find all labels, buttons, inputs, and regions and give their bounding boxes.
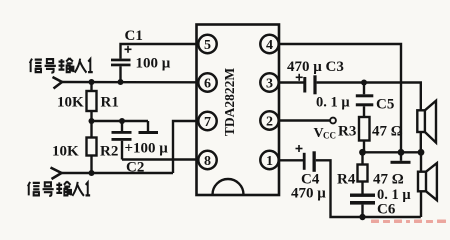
node R1 bottom [89,118,95,124]
svg-text:47 Ω: 47 Ω [372,124,403,140]
label 0.1u (C5) [316,95,350,111]
svg-text:8: 8 [204,154,211,169]
label 470u C3 [287,59,344,75]
capacitor C1 plates [111,59,131,67]
resistor R2 [87,121,97,173]
pin 2 [260,111,278,129]
wire speaker2 bottom to rail [420,191,422,217]
label C5 [376,97,394,113]
svg-text:470 μ: 470 μ [291,186,326,202]
pin 6 [198,73,216,91]
wire C1 bottom lead [119,66,121,82]
svg-text:2: 2 [266,114,273,129]
svg-text:R4: R4 [337,172,356,188]
入 [75,59,87,73]
wire pin 3 to C3 [278,81,303,83]
resistor R4 [358,152,368,193]
信 [30,59,42,73]
1 [88,59,93,72]
capacitor C4 plates [303,151,316,172]
capacitor C3 plates [303,75,316,94]
输 [59,58,74,72]
pin 8 [198,151,216,169]
号 [43,182,54,196]
input terminal 1 arrow [53,77,63,89]
watermark remnants [371,220,446,224]
1 [86,182,91,195]
svg-text:TDA2822M: TDA2822M [222,68,237,137]
label 信号输入1 bottom [28,181,90,196]
svg-text:5: 5 [204,38,211,53]
label 47ohm (R4) [373,172,404,188]
speaker LS1 [417,101,436,143]
pin 7 [198,112,216,130]
svg-text:C5: C5 [376,97,394,113]
label 0.1u (C6) [377,187,411,203]
wire C1 top to pin 5 [121,44,199,59]
node R3/R4 [359,149,366,156]
label 10K (R1) [57,95,84,111]
node C6 bottom [359,214,365,220]
svg-text:3: 3 [266,76,273,91]
label R2 [100,144,118,160]
svg-text:6: 6 [204,76,211,91]
svg-text:+100 μ: +100 μ [125,141,169,157]
svg-text:10K: 10K [52,144,79,160]
input terminal 2 arrow [51,168,62,180]
C4 polarity + [296,145,303,152]
svg-text:470 μ C3: 470 μ C3 [287,59,344,75]
op-amp U1 TDA2822M body [197,25,280,196]
输 [56,181,71,195]
入 [72,182,84,196]
label C1 [125,28,143,44]
resistor R1 [87,82,97,121]
wire pin 2 to Vcc [278,119,330,121]
capacitor C2 plates [112,121,132,160]
label R3 [338,124,356,140]
speaker LS2 [418,163,437,200]
svg-text:C6: C6 [377,202,396,218]
svg-text:4: 4 [266,38,273,53]
label 100u [136,56,171,72]
label R1 [101,95,119,111]
capacitor C6 [350,194,375,218]
wire C4 to bottom rail [316,160,421,217]
Vcc terminal [330,118,336,124]
pin 1 [260,151,278,169]
U1 notch [213,179,244,195]
ground right [391,152,411,164]
号 [45,59,56,73]
capacitor C5 [356,83,374,118]
wire C3 to speaker1 [317,83,421,111]
label 47ohm (R3) [372,124,403,140]
wire C2 bottom to pin 8 [122,158,199,160]
label +100u [125,141,169,157]
wire speaker1 bottom to node [420,132,422,152]
label 信号输入1 top [30,58,93,73]
pin 4 [260,35,278,53]
label C2 [126,160,144,176]
C3 polarity + [296,74,303,81]
wire input1 to pin 6 [62,81,199,84]
svg-text:1: 1 [266,154,273,169]
wire pin 1 to C4 [278,159,303,161]
wire pin 4 to right column [278,44,401,152]
svg-text:10K: 10K [57,95,84,111]
svg-text:7: 7 [204,115,211,130]
U1 label TDA2822M [222,68,237,137]
wire node to speaker2 top [420,152,422,171]
node C1 bottom [118,79,124,85]
svg-text:R3: R3 [338,124,356,140]
C1 polarity + [125,46,132,53]
node C5 top [361,80,367,86]
svg-text:R2: R2 [100,144,118,160]
label C4 [301,172,320,188]
label C6 [377,202,396,218]
node R1 top [89,79,95,85]
node C2 top [119,118,125,124]
wire node to ground bar [92,120,149,122]
svg-text:CC: CC [323,131,336,141]
svg-text:47 Ω: 47 Ω [373,172,404,188]
label 470u (C4) [291,186,326,202]
pin 5 [198,35,216,53]
wire pin 7 loop [173,121,199,173]
svg-text:R1: R1 [101,95,119,111]
svg-text:C1: C1 [125,28,143,44]
node pin4 column [398,149,405,156]
resistor R3 [359,117,370,152]
node R2 bottom [89,170,95,176]
label 10K (R2) [52,144,79,160]
mid node row wire [363,151,422,153]
信 [28,182,40,196]
wire input2 [62,172,174,174]
node speakers [418,149,425,156]
svg-text:100 μ: 100 μ [136,56,171,72]
svg-text:0. 1 μ: 0. 1 μ [316,95,350,111]
label Vcc [314,126,337,141]
pin 3 [260,73,278,91]
ground left [139,121,159,134]
label R4 [337,172,356,188]
